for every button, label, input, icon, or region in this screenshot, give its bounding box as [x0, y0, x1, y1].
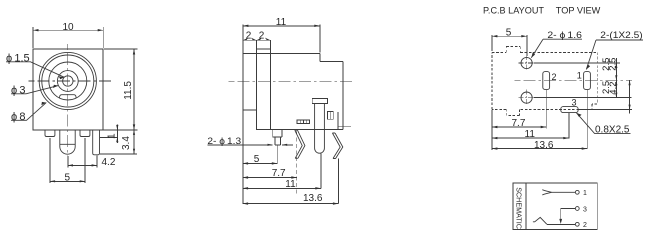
- rear step: [320, 53, 343, 129]
- arrow leader phi8: [41, 102, 46, 105]
- arrows dim 2.5 top pcb: [615, 63, 617, 68]
- arrows dim 5 side: [243, 162, 249, 164]
- slot 2: [543, 72, 550, 90]
- body bottom line: [256, 129, 343, 131]
- terminal 3 wire: [561, 209, 576, 220]
- mounting hole top: [521, 57, 532, 68]
- arrows dim 11.5: [133, 49, 135, 55]
- arrow leader phi1.6: [531, 52, 535, 57]
- barrel inner ring: [42, 55, 94, 107]
- front barb center extension (dashed): [296, 131, 298, 194]
- leader 2-(1X2.5): [586, 40, 643, 70]
- rear pin shaft with round bottom: [315, 103, 325, 153]
- svg-text:11: 11: [285, 179, 296, 190]
- dim 5 pcb line: [492, 35, 527, 37]
- side view centerline: [229, 80, 353, 82]
- arrows dim 13.6: [243, 202, 249, 204]
- switch contact arrow: [559, 219, 562, 224]
- pcb bottom left extension: [491, 110, 493, 150]
- arrows dim 10: [33, 29, 39, 31]
- dim 4.2 extension lines: [68, 155, 97, 167]
- collar back edge: [269, 40, 271, 129]
- svg-text:4.2: 4.2: [102, 157, 116, 168]
- arrows dim 4.2 pcb: [629, 80, 631, 85]
- arrows dim 1: [116, 125, 118, 130]
- dim 13.6 line: [243, 203, 339, 205]
- center pin with dome: [60, 130, 75, 154]
- dim 10 line: [33, 29, 103, 31]
- dim 2,2 line: [242, 39, 270, 41]
- dim 7.7 pcb line: [492, 126, 546, 128]
- front face extension down: [242, 110, 244, 204]
- terminal 2 circle: [575, 222, 579, 226]
- svg-text:11: 11: [525, 129, 536, 140]
- dim 13.6 pcb line: [492, 148, 587, 150]
- arrow leader phi3: [53, 85, 58, 88]
- svg-text:5: 5: [65, 173, 71, 184]
- dim phi1.3 line left part: [207, 144, 272, 146]
- leader 0.8X2.5: [577, 113, 631, 133]
- left stub pin: [45, 130, 55, 137]
- rear small square detail: [327, 112, 333, 120]
- svg-text:2: 2: [552, 72, 557, 82]
- schematic box frame: [513, 183, 597, 230]
- right long pin: [93, 130, 100, 155]
- dim phi1.3 line right part: [282, 144, 293, 146]
- arrows dim 11 top (side): [243, 25, 249, 27]
- dim 5 extension lines: [50, 138, 85, 183]
- arrows dim 11 pcb: [492, 137, 498, 139]
- flange bottom line: [243, 109, 257, 111]
- svg-text:13.6: 13.6: [303, 193, 323, 204]
- rear barb pin: [332, 133, 342, 159]
- arrows dim 4.2: [68, 164, 73, 166]
- dim 11 bottom line: [243, 187, 321, 189]
- leader 2-phi1.6: [531, 39, 582, 58]
- phi1.3 pin center extension: [276, 145, 278, 164]
- pcb centerline: [515, 79, 633, 81]
- switch lever: [533, 217, 547, 224]
- slot 3: [561, 107, 578, 113]
- right stub pin: [80, 130, 90, 137]
- dim 1 line: [116, 124, 118, 142]
- svg-text:2: 2: [259, 31, 265, 42]
- arrows dim 7.7: [243, 176, 249, 178]
- vertical centerline: [67, 44, 69, 168]
- arrows dim 7.7 pcb: [492, 126, 498, 128]
- dim 5 line: [50, 180, 85, 182]
- dim 11 top line: [243, 25, 320, 27]
- dim 7.7 line: [243, 177, 297, 179]
- svg-text:2: 2: [246, 31, 252, 42]
- arrows dim phi1.3: [268, 144, 273, 146]
- svg-text:5: 5: [506, 28, 512, 39]
- arrows dim 5 pcb: [492, 35, 498, 37]
- slot 1: [584, 72, 591, 90]
- hatched detail window: [297, 120, 310, 124]
- svg-text:7.7: 7.7: [512, 118, 526, 129]
- terminal 1 circle: [575, 190, 579, 194]
- front view body outline: [33, 49, 103, 130]
- svg-text:P.C.B LAYOUT: P.C.B LAYOUT: [483, 5, 544, 16]
- leader phi3: [11, 86, 58, 94]
- mounting hole bottom cross ticks: [519, 90, 535, 106]
- phi3 circle: [57, 71, 78, 92]
- terminal 2 wire: [547, 223, 575, 225]
- svg-text:SCHEMATIC: SCHEMATIC: [514, 187, 523, 229]
- step extension lines right of body: [100, 130, 138, 154]
- dim 11 top extension lines: [243, 25, 320, 53]
- dim 3.4 line: [133, 130, 135, 154]
- arrow leader 1X2.5: [586, 64, 590, 69]
- svg-text:1: 1: [107, 133, 118, 139]
- svg-text:2- ϕ 1.6: 2- ϕ 1.6: [547, 30, 582, 41]
- mounting hole top cross ticks: [519, 55, 535, 71]
- svg-text:10: 10: [63, 22, 75, 33]
- svg-text:5: 5: [254, 154, 260, 165]
- svg-text:3: 3: [583, 206, 587, 213]
- rear pin extension down: [320, 153, 322, 188]
- arrow leader phi1.5: [59, 76, 64, 79]
- svg-text:4.2: 4.2: [608, 81, 619, 94]
- front barb pin: [295, 130, 305, 158]
- arrows dim 13.6 pcb: [492, 147, 498, 149]
- center pin fork symbol: [542, 190, 575, 195]
- arrows dim 2,2 ticks: [243, 38, 249, 41]
- ext hole2 right: [534, 97, 632, 99]
- rear bottom notch: [338, 112, 351, 130]
- svg-text:ϕ 1.5: ϕ 1.5: [6, 52, 30, 64]
- svg-text:ϕ 8: ϕ 8: [11, 111, 25, 123]
- collar step line: [256, 48, 270, 50]
- arrow leader 0.8X2.5: [577, 113, 582, 117]
- svg-text:2: 2: [583, 222, 587, 229]
- slot3 extension down: [568, 113, 570, 139]
- schematic divider: [525, 183, 527, 230]
- flange back edge: [255, 40, 257, 129]
- barrel outer circle: [39, 52, 96, 109]
- pcb dashed outline: [492, 47, 597, 116]
- svg-text:13.6: 13.6: [534, 140, 554, 151]
- front face edge: [242, 40, 244, 110]
- svg-text:2.5: 2.5: [607, 58, 618, 71]
- slot2 extension down: [545, 90, 547, 128]
- svg-text:3: 3: [572, 97, 577, 107]
- rear barb extension down: [337, 159, 339, 204]
- arrows dim 11 bottom: [243, 187, 249, 189]
- dim 11.5 line: [133, 49, 135, 130]
- arrows dim 3.4: [133, 130, 135, 135]
- svg-text:ϕ 3: ϕ 3: [11, 84, 25, 96]
- svg-text:3.4: 3.4: [121, 136, 132, 150]
- svg-text:1: 1: [577, 71, 582, 81]
- arrows dim 5 (front): [50, 180, 55, 182]
- dim 5 pcb extension lines: [492, 35, 527, 56]
- svg-text:11.5: 11.5: [123, 81, 134, 100]
- dim 5 line (side): [243, 162, 278, 164]
- key slot: [60, 95, 76, 99]
- ext slot3 right: [579, 109, 632, 111]
- svg-text:2- ϕ 1.3: 2- ϕ 1.3: [207, 136, 241, 147]
- dim 4.2 pcb line: [629, 80, 631, 113]
- slot1 extension down: [586, 90, 588, 149]
- phi1.3 pin: [273, 130, 282, 145]
- dim 11.5 extension line: [104, 48, 137, 50]
- svg-text:11: 11: [276, 17, 287, 28]
- svg-text:1: 1: [583, 190, 587, 197]
- mounting hole bottom: [521, 92, 532, 103]
- svg-text:0.8X2.5: 0.8X2.5: [595, 124, 630, 135]
- svg-text:TOP VIEW: TOP VIEW: [556, 5, 601, 16]
- leader phi8: [11, 103, 46, 121]
- svg-text:2-(1X2.5): 2-(1X2.5): [600, 30, 642, 41]
- dim 10 extension lines: [33, 27, 103, 48]
- leader phi1.5: [6, 62, 64, 77]
- terminal 3 circle: [575, 207, 579, 211]
- dim 11 pcb line: [492, 137, 569, 139]
- horizontal centerline: [28, 80, 111, 82]
- ext hole1 right: [534, 62, 620, 64]
- phi1.5 center pin circle: [63, 76, 73, 86]
- svg-text:7.7: 7.7: [272, 168, 286, 179]
- rear pin cap: [312, 98, 327, 103]
- collar circle: [49, 62, 87, 100]
- dim 2.5/2.5 line: [615, 58, 617, 98]
- main body top line: [243, 52, 320, 54]
- dim 4.2 line: [68, 164, 97, 166]
